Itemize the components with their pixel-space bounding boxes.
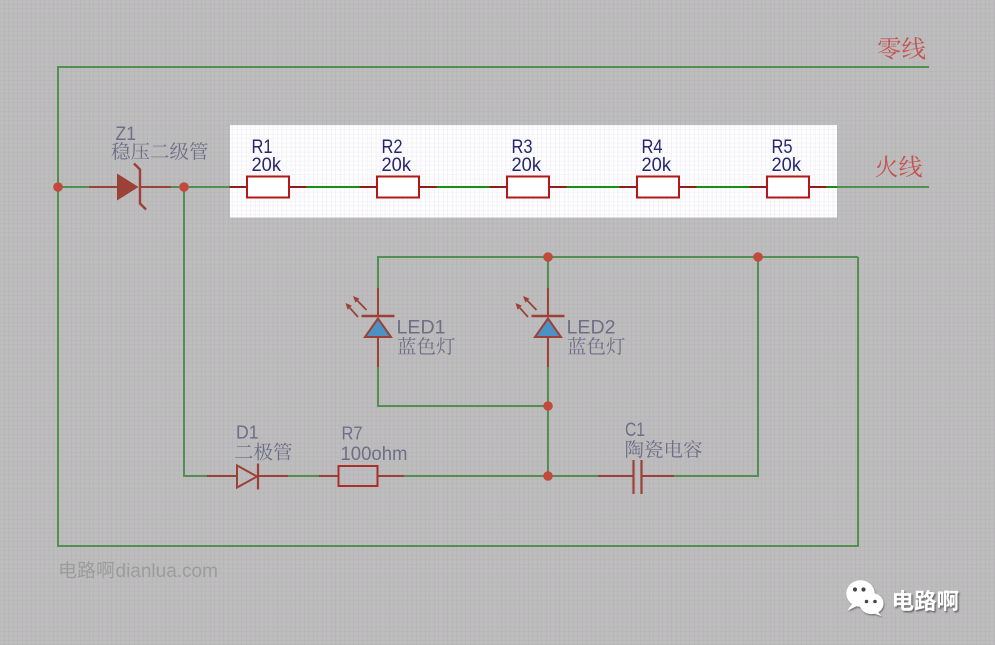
svg-text:LED1: LED1 xyxy=(397,318,446,339)
resistor R3 body xyxy=(507,177,549,198)
capacitor C1 left lead xyxy=(598,475,634,477)
wire node A down to D1 branch xyxy=(184,187,207,476)
svg-text:Z1: Z1 xyxy=(116,124,137,145)
resistor R3 leads xyxy=(490,186,567,188)
junction LED2 top xyxy=(543,252,553,262)
resistor R5 leads xyxy=(750,186,827,188)
white highlight band behind R1-R5 xyxy=(230,125,837,218)
LED LED1 triangle xyxy=(365,319,391,338)
resistor R7 leads xyxy=(319,475,404,477)
wire between R2 and R3 xyxy=(437,186,490,188)
resistor R4 leads xyxy=(620,186,697,188)
wire R5 to live terminal xyxy=(827,186,838,188)
wire between R1 and R2 xyxy=(307,186,360,188)
resistor R4 body xyxy=(637,177,679,198)
resistor R1 leads xyxy=(230,186,307,188)
wire live line: left rail to Z1 anode xyxy=(58,186,89,188)
wire right rail xyxy=(857,257,859,547)
label LED2 蓝色灯 xyxy=(568,337,586,354)
junction node A Z1 cathode xyxy=(179,182,189,192)
wire right branch vertical xyxy=(757,257,759,477)
svg-text:R7: R7 xyxy=(342,423,363,444)
svg-text:20k: 20k xyxy=(772,154,802,176)
svg-text:C1: C1 xyxy=(625,420,645,441)
zener diode Z1 cathode bar with zener hooks xyxy=(134,164,146,210)
resistor R7 body xyxy=(339,466,378,486)
wire between R3 and R4 xyxy=(567,186,620,188)
wire between R4 and R5 xyxy=(697,186,750,188)
capacitor C1 right lead xyxy=(642,475,675,477)
svg-text:LED2: LED2 xyxy=(567,318,616,339)
wire LED bottom link xyxy=(378,405,548,407)
wire C1 to right branch xyxy=(674,475,758,477)
svg-text:20k: 20k xyxy=(642,154,672,176)
wire LED2 top lead xyxy=(547,256,549,288)
LED LED1 emission arrows xyxy=(350,308,358,317)
label Z1 稳压二级管 xyxy=(111,142,129,160)
LED LED1 cathode bar xyxy=(362,315,395,317)
resistor R5 body xyxy=(767,177,809,198)
wire D1 cathode to R7 xyxy=(288,475,319,477)
watermark 电路啊dianlua.com xyxy=(60,561,76,578)
net label 零线 neutral xyxy=(878,37,901,59)
svg-text:D1: D1 xyxy=(236,422,259,443)
logo wechat icon big bubble xyxy=(846,580,874,610)
LED LED2 cathode bar xyxy=(532,315,565,317)
wire LED1 top lead xyxy=(377,256,379,288)
svg-text:20k: 20k xyxy=(512,154,542,176)
logo text 电路啊 xyxy=(894,590,958,611)
junction right branch top xyxy=(753,252,763,262)
resistor R2 leads xyxy=(360,186,437,188)
wire LED top rail xyxy=(378,256,858,258)
wire node B to C1 xyxy=(548,475,598,477)
wire neutral top rail xyxy=(58,66,929,68)
zener diode Z1 cathode lead xyxy=(140,186,171,188)
LED LED2 triangle xyxy=(535,319,561,338)
resistor R1 body xyxy=(247,177,289,198)
capacitor C1 plates xyxy=(634,460,642,494)
label LED1 蓝色灯 xyxy=(398,337,416,354)
svg-text:dianlua.com: dianlua.com xyxy=(116,561,218,582)
junction node B xyxy=(543,471,553,481)
logo wechat icon small bubble xyxy=(860,593,884,616)
junction left rail / live line xyxy=(53,182,63,192)
label C1 陶瓷电容 xyxy=(626,440,643,458)
LED LED2 emission arrows xyxy=(520,308,528,317)
diode D1 cathode bar xyxy=(257,464,259,490)
diode D1 triangle xyxy=(237,466,257,488)
svg-text:100ohm: 100ohm xyxy=(341,444,408,465)
svg-text:20k: 20k xyxy=(382,154,412,176)
wire Z1 cathode to node A xyxy=(171,186,230,188)
wire LED1 bottom lead xyxy=(377,337,379,367)
junction LED bottom link xyxy=(543,401,553,411)
wire bottom rail xyxy=(57,545,858,547)
net label 火线 live xyxy=(875,155,897,177)
zener diode Z1 triangle xyxy=(117,174,139,201)
diode D1 cathode lead xyxy=(258,475,288,477)
wire LED2 bottom lead xyxy=(547,337,549,367)
diode D1 anode lead xyxy=(207,475,237,477)
wire LED2 node to node B xyxy=(547,406,549,476)
svg-text:20k: 20k xyxy=(252,154,282,176)
label D1 二极管 xyxy=(235,445,253,458)
wire left rail xyxy=(57,66,59,546)
wire R7 to node B xyxy=(404,475,548,477)
resistor R2 body xyxy=(377,177,419,198)
zener diode Z1 anode lead xyxy=(89,186,117,188)
